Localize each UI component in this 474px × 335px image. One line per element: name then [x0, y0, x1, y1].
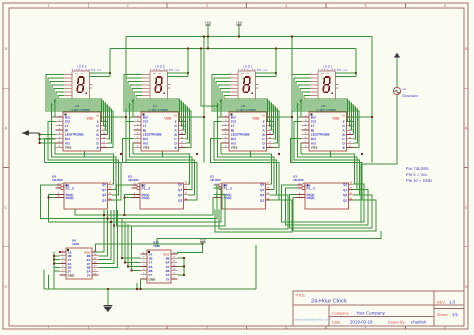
wire bundle segments LED1: [292, 75, 359, 148]
svg-text:VDD: VDD: [86, 116, 94, 120]
svg-text:7408: 7408: [72, 242, 79, 246]
7-seg display LED3: [142, 65, 189, 99]
wire bus counter U3 to decoder U7: [123, 117, 198, 200]
svg-text:VDD: VDD: [252, 116, 260, 120]
7-seg display LED4: [64, 65, 111, 99]
svg-text:Your Company: Your Company: [356, 311, 386, 316]
wire display LED1 common to +5V rail: [355, 49, 357, 77]
svg-text:Q1: Q1: [260, 188, 264, 192]
wire decoder U5 VDD to +5V rail: [108, 37, 128, 163]
wire generator to counter U1 clock: [361, 95, 397, 223]
svg-text:2019-03-19: 2019-03-19: [350, 320, 373, 325]
svg-text:Q2: Q2: [178, 193, 182, 197]
svg-text:Q3: Q3: [343, 199, 347, 203]
svg-text:B: B: [465, 126, 468, 131]
svg-text:P1...3: P1...3: [142, 186, 151, 190]
wire reset feedback loops B: [282, 184, 377, 231]
svg-text:R0(2): R0(2): [66, 196, 74, 200]
wire decoder U7 VDD to +5V rail: [186, 36, 206, 163]
svg-text:For 74LS93:: For 74LS93:: [406, 166, 429, 171]
svg-text:P1...3: P1...3: [224, 186, 233, 190]
svg-text:D: D: [5, 284, 8, 289]
power +5V symbol 2: [236, 21, 243, 38]
svg-text:R0(2): R0(2): [142, 196, 150, 200]
svg-text:Sheet:: Sheet:: [437, 313, 448, 317]
svg-text:VSS: VSS: [143, 146, 150, 150]
svg-text:24-Hour Clock: 24-Hour Clock: [311, 297, 347, 304]
svg-text:74LS93: 74LS93: [52, 178, 63, 182]
wire bus counter U4 to decoder U5: [45, 117, 122, 200]
counter U1 74LS93: [293, 175, 353, 210]
svg-text:Date:: Date:: [332, 321, 341, 325]
svg-text:A: A: [465, 46, 468, 51]
svg-text:A: A: [5, 46, 8, 51]
wire decoder U9 B C inputs: [298, 100, 302, 122]
wire +5V rail upper: [126, 36, 372, 38]
svg-text:Q1: Q1: [343, 188, 347, 192]
7-seg display LED2: [230, 65, 277, 99]
svg-text:+5V: +5V: [205, 21, 212, 25]
counter U3 74LS93: [128, 175, 188, 210]
svg-text:Q3: Q3: [102, 199, 106, 203]
wire decoder U8 B C inputs: [218, 100, 222, 122]
svg-text:Q0: Q0: [178, 183, 182, 187]
svg-text:Q2: Q2: [102, 193, 106, 197]
power +5V symbol 1: [205, 21, 212, 50]
svg-text:lceda.cn/charlish/24-hour-cloc: lceda.cn/charlish/24-hour-clock: [294, 318, 332, 321]
svg-text:REV:: REV:: [437, 300, 446, 304]
ground symbol: [103, 289, 112, 312]
wire +5V rail lower: [110, 48, 356, 50]
wire bundle segments LED2: [212, 75, 279, 148]
svg-text:1.0: 1.0: [449, 300, 456, 305]
wire display LED2 common to +5V rail: [275, 48, 277, 77]
wire +5V to gate ICs: [96, 244, 203, 254]
wire ground net: [44, 245, 256, 290]
input port arrow left: [22, 130, 40, 136]
wire display LED3 common to +5V rail: [187, 48, 189, 77]
decoder U5 CD4511: [56, 104, 108, 151]
svg-text:Q0: Q0: [102, 183, 106, 187]
wire bus counter U1 to decoder U9: [291, 117, 363, 200]
svg-text:G4: G4: [403, 88, 407, 91]
wire U6 input ties: [53, 251, 61, 271]
svg-text:VSS: VSS: [65, 146, 72, 150]
wire decoder U9 VDD to +5V rail: [354, 37, 374, 163]
wire decoder U8 VDD to +5V rail: [274, 36, 294, 163]
svg-text:TITLE:: TITLE:: [295, 294, 306, 298]
wire LT BI feed decoder U8: [200, 48, 218, 106]
wire decoder U5 B C inputs: [52, 100, 56, 122]
decoder U7 CD4511: [134, 104, 186, 151]
wire bundle segments LED3: [124, 75, 191, 148]
svg-text:P1...3: P1...3: [307, 186, 316, 190]
svg-text:Q1: Q1: [178, 188, 182, 192]
svg-text:Pin 5 = Vcc: Pin 5 = Vcc: [406, 172, 427, 177]
signal generator G1: [393, 53, 419, 98]
svg-text:Generator: Generator: [402, 94, 419, 98]
svg-text:GND: GND: [68, 273, 76, 277]
svg-text:C: C: [465, 205, 468, 210]
gate IC U10 7408: [141, 241, 178, 284]
svg-text:P1...3: P1...3: [66, 186, 75, 190]
svg-text:VSS: VSS: [231, 146, 238, 150]
wire input port to decoder U5: [38, 133, 55, 144]
svg-text:GND: GND: [149, 277, 157, 281]
svg-text:+5V: +5V: [236, 21, 243, 25]
wire bus counter U2 to decoder U8: [211, 117, 280, 200]
svg-text:Drawn By:: Drawn By:: [388, 321, 406, 325]
svg-text:Q2: Q2: [343, 193, 347, 197]
7-seg display LED1: [310, 65, 357, 99]
svg-text:D: D: [465, 284, 468, 289]
svg-text:1/1: 1/1: [452, 312, 459, 317]
svg-text:Q0: Q0: [260, 183, 264, 187]
decoder U8 CD4511: [222, 104, 274, 151]
svg-text:74LS93: 74LS93: [293, 178, 304, 182]
wire band to U10 inputs: [121, 219, 141, 272]
svg-text:Q1: Q1: [102, 188, 106, 192]
svg-text:R0(2): R0(2): [307, 196, 315, 200]
svg-text:charlish: charlish: [411, 320, 427, 325]
note 74LS93 power pins: [406, 166, 432, 183]
wire reset feedback loops A: [41, 185, 293, 232]
svg-text:VSS: VSS: [311, 146, 318, 150]
svg-text:Q3: Q3: [178, 199, 182, 203]
svg-text:Pin 10 = GND: Pin 10 = GND: [406, 178, 432, 183]
svg-text:VDD: VDD: [332, 116, 340, 120]
wire decoder U7 B C inputs: [130, 100, 134, 122]
svg-text:C: C: [5, 205, 8, 210]
svg-text:Q3: Q3: [260, 199, 264, 203]
svg-text:Q0: Q0: [343, 183, 347, 187]
svg-text:B: B: [5, 126, 8, 131]
gate IC U6 7408: [60, 239, 99, 280]
svg-text:VDD: VDD: [164, 116, 172, 120]
wire U10 output ties: [178, 257, 185, 276]
svg-text:Q2: Q2: [260, 193, 264, 197]
svg-text:74LS93: 74LS93: [210, 178, 221, 182]
wire bundle segments LED4: [46, 75, 113, 148]
counter U2 74LS93: [210, 175, 270, 210]
wire display LED4 common to +5V rail: [109, 49, 111, 77]
svg-text:Company:: Company:: [332, 311, 349, 315]
wire net bottom long: [157, 231, 381, 247]
wire band to U6 inputs: [99, 210, 118, 267]
decoder U9 CD4511: [302, 104, 354, 151]
title block: [293, 291, 464, 326]
svg-text:74LS93: 74LS93: [128, 178, 139, 182]
power +5V symbol 3: [199, 238, 206, 245]
counter U4 74LS93: [52, 175, 112, 210]
